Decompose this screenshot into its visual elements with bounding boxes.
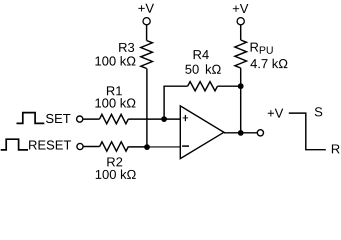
resistor R1: [100, 114, 129, 123]
value 50 kOhm for R4: [185, 64, 220, 74]
terminal circle +V left: [143, 18, 150, 25]
value 100 kOhm for R1: [95, 98, 135, 108]
label S set level: [315, 107, 322, 116]
wire R1 to comparator plus input: [128, 118, 180, 120]
label R2: [107, 157, 122, 166]
junction dot RPU/R4: [238, 83, 244, 89]
RESET input pulse symbol: [1, 139, 28, 150]
wire R3 bottom down to minus-input node: [146, 69, 148, 148]
SET input pulse symbol: [17, 113, 45, 124]
label RESET: [29, 140, 71, 149]
terminal circle SET input: [77, 116, 83, 122]
output waveform step S to R: [289, 113, 326, 150]
op-amp U1 comparator triangle: [180, 106, 224, 159]
terminal circle output: [257, 130, 263, 136]
wire +V left terminal to R3: [146, 25, 148, 41]
wire +V right terminal to RPU: [240, 25, 242, 40]
wire RPU bottom to output node: [240, 68, 242, 133]
label +V right supply: [233, 4, 249, 13]
junction dot output node: [238, 130, 244, 136]
wire R2 to minus-input node: [128, 146, 147, 148]
wire comparator output: [224, 132, 257, 134]
label R1: [107, 86, 122, 95]
label R reset level: [332, 144, 340, 153]
plus sign at noninverting input: [183, 115, 188, 121]
terminal circle +V right: [237, 18, 244, 25]
wire R4 right end to RPU branch: [218, 85, 241, 87]
wire R4 left end down to plus-input node: [164, 86, 188, 119]
label +V left supply: [138, 4, 154, 13]
value 100 kOhm for R2: [96, 169, 136, 179]
wire RESET terminal to R2: [83, 146, 100, 148]
terminal circle RESET input: [77, 143, 83, 149]
label SET: [46, 114, 70, 123]
resistor R4: [188, 82, 218, 91]
value 100 kOhm for R3: [95, 56, 135, 66]
label R4: [194, 50, 209, 59]
junction dot node at R3/R2/minus-input: [144, 144, 150, 150]
resistor R3: [141, 41, 153, 69]
label RPU: [251, 43, 273, 54]
wire SET terminal to R1: [83, 118, 100, 120]
resistor RPU: [235, 40, 247, 68]
wire minus-input node to comparator: [147, 146, 180, 148]
resistor R2: [100, 142, 129, 151]
minus sign at inverting input: [182, 145, 189, 147]
label R3: [119, 43, 134, 52]
junction dot R4/plus-input: [161, 116, 167, 122]
label +V output high level: [268, 109, 284, 118]
value 4.7 kOhm for RPU: [250, 59, 287, 68]
